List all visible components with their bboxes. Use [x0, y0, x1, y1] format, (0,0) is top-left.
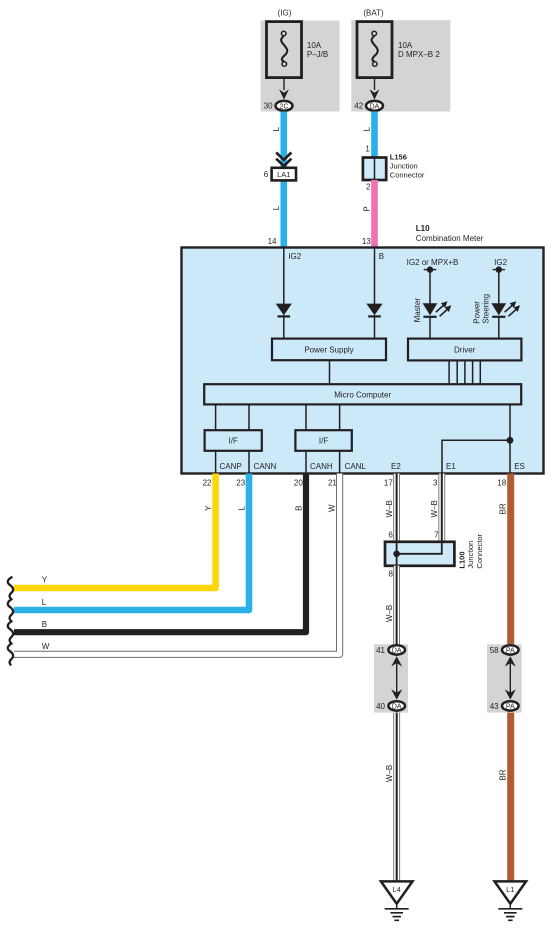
junction connector L100 — [385, 542, 454, 566]
ground L1 earth symbol — [509, 904, 511, 909]
svg-text:2C: 2C — [280, 103, 289, 110]
svg-text:D MPX–B 2: D MPX–B 2 — [398, 50, 440, 59]
svg-text:42: 42 — [354, 102, 363, 111]
svg-text:IG2 or MPX+B: IG2 or MPX+B — [407, 258, 459, 267]
continuation squiggle L — [8, 599, 13, 621]
svg-text:41: 41 — [376, 646, 385, 655]
wire L (blue) from 2C to meter pin 14 — [280, 112, 287, 249]
connector LA1 box — [272, 168, 296, 181]
svg-text:Micro Computer: Micro Computer — [334, 391, 391, 400]
wire W-B from L100 pin 8 to DA — [393, 566, 400, 645]
PART: feed wires — [264, 112, 425, 249]
svg-text:PA: PA — [506, 703, 515, 710]
svg-text:E1: E1 — [446, 462, 456, 471]
continuation squiggle Y — [8, 577, 13, 599]
wire P (pink) from L156 to meter pin 13 — [371, 180, 378, 248]
power source block (BAT) background — [351, 20, 450, 111]
wire D1 to power supply — [283, 315, 285, 339]
wire B (black) CANH — [14, 474, 306, 633]
wire LED Power Steering to driver — [498, 317, 500, 339]
svg-text:P–J/B: P–J/B — [307, 50, 328, 59]
ground L4 triangle — [381, 881, 413, 903]
PART: combination meter — [182, 224, 544, 487]
ground L4 earth symbol — [396, 904, 398, 909]
svg-text:23: 23 — [236, 478, 245, 487]
wire micro computer to ES — [509, 404, 511, 473]
wire branch to E1 — [442, 440, 510, 473]
svg-text:20: 20 — [294, 478, 303, 487]
svg-text:B: B — [42, 620, 47, 629]
pin 42 terminal DA — [366, 101, 383, 111]
fuse 10A D MPX-B 2 body — [357, 22, 392, 78]
wires micro computer to I/F — [216, 404, 340, 430]
LED Power Steering — [491, 303, 506, 315]
connector block PA background — [487, 644, 522, 712]
svg-text:(BAT): (BAT) — [363, 8, 384, 17]
svg-text:L4: L4 — [393, 885, 401, 894]
pin B internal wire — [374, 248, 376, 304]
wire L100 internal link — [397, 542, 442, 554]
connector arrow up — [391, 656, 402, 666]
svg-text:W–B: W–B — [385, 605, 394, 622]
I/F box right — [295, 430, 351, 451]
driver box — [408, 339, 521, 361]
terminal 40 DA — [388, 701, 405, 710]
svg-text:B: B — [295, 506, 304, 511]
svg-text:2: 2 — [366, 183, 371, 192]
svg-text:W: W — [42, 642, 50, 651]
svg-text:Junction: Junction — [390, 162, 418, 171]
wire W-B from E1 to L100 pin 7 — [438, 474, 445, 542]
wire between PA arrows — [509, 662, 511, 694]
svg-text:Steering: Steering — [482, 294, 491, 324]
wire power supply to micro computer — [329, 360, 331, 384]
svg-text:L156: L156 — [390, 153, 407, 162]
PART: top fuses — [261, 8, 451, 111]
PART: lower wiring — [8, 474, 526, 921]
connector LA1 chevrons — [276, 153, 291, 167]
terminal 58 PA — [502, 645, 519, 654]
svg-text:IG2: IG2 — [288, 252, 301, 261]
svg-text:B: B — [379, 252, 384, 261]
svg-text:CANL: CANL — [345, 462, 367, 471]
wire between DA arrows — [396, 662, 398, 694]
svg-text:(IG): (IG) — [278, 8, 292, 17]
svg-text:30: 30 — [264, 102, 273, 111]
wire BR (brown) from ES to PA — [507, 474, 514, 645]
svg-text:LA1: LA1 — [277, 170, 290, 179]
svg-text:L10: L10 — [416, 224, 430, 233]
svg-text:58: 58 — [490, 646, 499, 655]
svg-text:E2: E2 — [391, 462, 401, 471]
svg-text:Master: Master — [413, 298, 422, 323]
wires driver to micro computer — [449, 360, 480, 384]
connector block DA background — [374, 644, 408, 712]
svg-text:L: L — [363, 126, 372, 131]
terminal 43 PA — [502, 701, 519, 710]
svg-text:8: 8 — [389, 569, 394, 578]
terminal 41 DA — [388, 645, 405, 654]
power source block (IG) background — [261, 21, 340, 112]
LED Power Steering emission arrows — [505, 305, 516, 316]
connector arrow up — [505, 656, 516, 666]
wire LED Master to driver — [429, 317, 431, 339]
svg-text:L: L — [272, 126, 281, 131]
connector arrow down — [505, 689, 516, 699]
svg-text:14: 14 — [268, 237, 277, 246]
svg-text:L1: L1 — [506, 885, 514, 894]
svg-text:W: W — [328, 504, 337, 512]
pin IG2 internal wire — [283, 248, 285, 304]
wire Y (yellow) CANP — [14, 474, 216, 589]
svg-text:10A: 10A — [398, 41, 413, 50]
svg-text:IG2: IG2 — [494, 258, 507, 267]
micro computer box — [204, 384, 521, 404]
svg-text:43: 43 — [490, 702, 499, 711]
svg-text:L: L — [237, 505, 246, 510]
svg-text:40: 40 — [376, 702, 385, 711]
svg-text:W–B: W–B — [385, 765, 394, 782]
svg-text:10A: 10A — [307, 41, 322, 50]
node junction dot — [507, 437, 514, 444]
wires I/F to pins — [216, 451, 340, 474]
svg-text:Connector: Connector — [475, 533, 484, 568]
continuation squiggle B — [8, 621, 13, 643]
wire node to LED Power Steering — [498, 270, 500, 304]
svg-text:L: L — [272, 205, 281, 210]
wire D2 to power supply — [374, 315, 376, 339]
svg-text:Y: Y — [42, 576, 48, 585]
svg-text:17: 17 — [384, 478, 393, 487]
power supply box — [272, 339, 386, 361]
wire BR from PA to ground L1 — [507, 713, 514, 882]
wire W-B from E2 to L100 pin 6 — [393, 474, 400, 542]
fuse 10A D MPX-B 2 element — [372, 36, 378, 62]
svg-text:L: L — [42, 598, 47, 607]
fuse 10A P-J/B body — [267, 22, 302, 78]
svg-text:Driver: Driver — [454, 345, 476, 354]
connector arrow down — [391, 689, 402, 699]
svg-text:13: 13 — [362, 237, 371, 246]
svg-text:W–B: W–B — [430, 500, 439, 517]
svg-text:DA: DA — [370, 103, 380, 110]
svg-text:6: 6 — [264, 170, 269, 179]
svg-text:PA: PA — [506, 647, 515, 654]
LED Master — [423, 303, 438, 315]
svg-text:I/F: I/F — [229, 437, 238, 446]
wire fuse1 to connector — [283, 78, 285, 91]
svg-text:BR: BR — [499, 503, 508, 514]
wire L (blue) CANN — [14, 474, 249, 611]
svg-text:P: P — [363, 206, 372, 211]
combination meter L10 box — [182, 248, 544, 474]
fuse 10A P-J/B element — [281, 36, 287, 62]
pin 30 terminal 2C — [276, 101, 293, 111]
svg-text:Combination Meter: Combination Meter — [416, 234, 484, 243]
connector arrow (IG) — [279, 89, 289, 99]
wire L (blue) from DA to L156 — [371, 112, 378, 158]
node dot in L100 — [393, 551, 400, 558]
ground L1 triangle — [495, 881, 527, 903]
svg-text:L100: L100 — [457, 551, 466, 568]
svg-text:1: 1 — [365, 145, 370, 154]
connector arrow (BAT) — [370, 89, 380, 99]
diode D1 — [276, 304, 292, 316]
svg-text:Power Supply: Power Supply — [304, 345, 353, 354]
svg-text:CANH: CANH — [310, 462, 333, 471]
svg-text:W–B: W–B — [385, 500, 394, 517]
svg-text:3: 3 — [433, 478, 438, 487]
svg-text:18: 18 — [497, 478, 506, 487]
svg-text:22: 22 — [203, 478, 212, 487]
LED Master emission arrows — [436, 305, 447, 316]
svg-text:ES: ES — [514, 462, 525, 471]
I/F box left — [205, 430, 262, 451]
svg-text:BR: BR — [499, 769, 508, 780]
wire fuse2 to connector — [374, 78, 376, 91]
wire W (white) CANL — [14, 474, 340, 655]
svg-text:I/F: I/F — [319, 437, 328, 446]
wire W-B from DA to ground L4 — [393, 713, 400, 882]
svg-text:Power: Power — [473, 301, 482, 324]
svg-text:6: 6 — [388, 530, 393, 539]
wire node to LED Master — [429, 270, 431, 304]
svg-text:DA: DA — [392, 703, 402, 710]
svg-text:7: 7 — [434, 530, 439, 539]
continuation squiggle W — [8, 643, 13, 665]
svg-text:CANP: CANP — [220, 462, 242, 471]
svg-text:DA: DA — [392, 647, 402, 654]
svg-text:Y: Y — [204, 505, 213, 511]
svg-text:CANN: CANN — [254, 462, 277, 471]
junction connector L156 — [363, 158, 386, 181]
svg-text:Connector: Connector — [390, 170, 425, 179]
diode D2 — [366, 304, 382, 316]
